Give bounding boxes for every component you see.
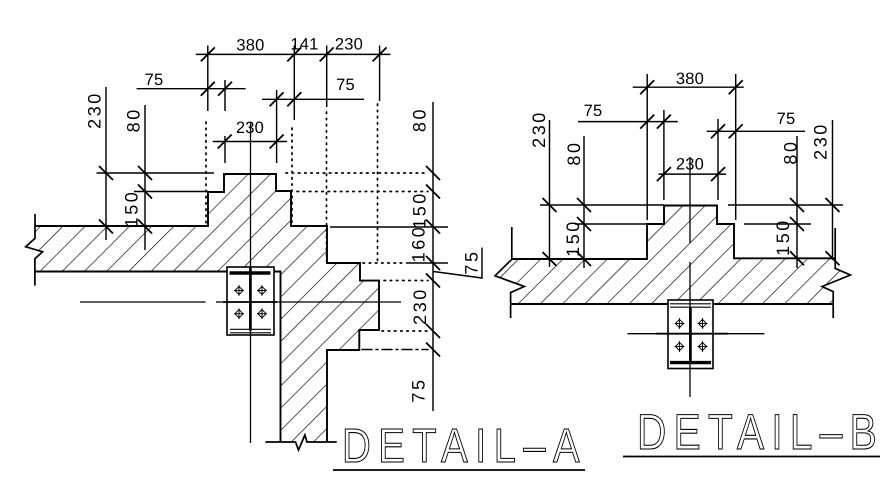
svg-text:150: 150: [122, 190, 142, 228]
ticks: chains B slab top: [543, 252, 557, 266]
concrete section B outline (slab with plinth): [512, 206, 835, 260]
witness x=663.9: [663, 110, 665, 200]
svg-text:150: 150: [563, 219, 583, 257]
plate A web (thick vertical): [249, 268, 252, 331]
witness x=207.8: [207, 46, 209, 112]
svg-text:230: 230: [811, 122, 831, 160]
svg-text:230: 230: [410, 287, 430, 325]
bolt A3: [234, 308, 244, 319]
slab B right break line: [822, 228, 850, 318]
svg-text:75: 75: [409, 377, 429, 402]
dim line 380 (top B): [633, 86, 744, 88]
ticks: left chains A: [99, 166, 113, 180]
witness x=718: [717, 119, 719, 200]
column A centerline (vertical): [250, 122, 252, 443]
concrete section A outline (stepped slab/column): [35, 174, 379, 442]
left chain line x=584: [583, 136, 585, 268]
bolt B1: [675, 318, 685, 329]
witness x=379.6: [379, 46, 381, 102]
right chain line x=797: [796, 136, 798, 268]
leader for 75: [434, 248, 483, 279]
bolt A2: [257, 285, 267, 296]
svg-text:160: 160: [409, 225, 429, 263]
ticks: right chain A: [426, 166, 440, 180]
ticks: dim 75 top left: [201, 82, 215, 96]
svg-text:150: 150: [410, 191, 430, 229]
ticks: chains B step level: [577, 217, 591, 231]
ticks: dim 230 mid: [218, 135, 232, 149]
witness x=326.7: [326, 46, 328, 108]
peak level witness line left B: [540, 204, 664, 206]
step level witness line left: [134, 191, 208, 193]
slab B left break line: [495, 227, 524, 318]
tick marks A: [99, 47, 440, 356]
column A bottom break line: [265, 435, 336, 450]
bolt B2: [698, 318, 708, 329]
ticks: dim 230 mid B: [657, 167, 671, 181]
svg-text:230: 230: [85, 91, 105, 129]
svg-text:150: 150: [773, 218, 793, 256]
svg-text:80: 80: [781, 139, 801, 164]
witness x=735.7: [735, 74, 737, 220]
svg-text:75: 75: [336, 76, 355, 94]
witness x=225 (lower): [224, 136, 226, 163]
svg-text:230: 230: [335, 36, 363, 54]
left chain line x=549.5: [549, 120, 551, 267]
plate A bottom packing plate (double line): [230, 328, 271, 330]
bolt group A centerline (horizontal): [80, 301, 206, 303]
bolt A4: [257, 308, 267, 319]
right chain line x=832.5: [832, 120, 834, 260]
dimension lines B: [540, 74, 843, 268]
witness x=294.3: [293, 46, 295, 121]
dim line 230 (mid B): [659, 173, 727, 175]
dim line 230 (mid): [213, 141, 287, 143]
step level witness left B: [575, 223, 647, 225]
svg-text:230: 230: [529, 110, 549, 148]
witness x=225 (upper): [224, 80, 226, 111]
slab A left break line: [26, 214, 43, 286]
dim line 75 (top right): [262, 98, 364, 100]
bolts A: [234, 285, 244, 296]
ticks: chains B peak level: [543, 198, 557, 212]
plate A top flange (thick): [230, 271, 271, 274]
svg-text:75: 75: [777, 110, 796, 128]
slab B bottom edge: [511, 303, 834, 305]
dim line 75 (left B): [578, 121, 678, 123]
svg-text:DETAIL–B: DETAIL–B: [637, 404, 884, 460]
ticks: dim 75 right B: [711, 124, 725, 138]
right chain line A: [432, 102, 434, 411]
column B centerline (vertical): [689, 157, 691, 243]
left chain line x=106: [105, 87, 107, 240]
dim line 75 (right B): [707, 130, 805, 132]
bolt B4: [698, 341, 708, 352]
peak level witness line right B: [728, 204, 843, 206]
svg-text:80: 80: [124, 107, 144, 132]
splice plate A (white): [227, 267, 274, 335]
slab A bottom edge: [35, 271, 227, 273]
bolt B3: [675, 341, 685, 352]
dimension lines A: [97, 46, 483, 412]
witness x=647.2: [646, 74, 648, 220]
witness x=276.6: [276, 90, 278, 163]
svg-text:380: 380: [676, 70, 704, 88]
dim line 75 (top left): [137, 88, 246, 90]
bolt group B centerline (horizontal): [628, 333, 765, 335]
slab top witness to right chain: [330, 226, 448, 228]
plate B web (thick vertical): [689, 307, 692, 361]
ticks: dim 75 left B: [640, 115, 654, 129]
svg-text:230: 230: [236, 119, 264, 137]
svg-text:80: 80: [564, 140, 584, 165]
svg-text:380: 380: [236, 37, 264, 55]
concrete section B hatch fill: [495, 206, 850, 305]
svg-text:80: 80: [410, 107, 430, 132]
peak level witness line left: [97, 172, 215, 174]
left chain line x=145: [144, 105, 146, 250]
ticks: top dim 380/141/230: [201, 47, 215, 61]
step witness y=263 near right chain: [406, 262, 448, 264]
plate B bottom flange (thick): [670, 361, 711, 364]
svg-text:75: 75: [584, 102, 603, 120]
svg-text:75: 75: [145, 71, 164, 89]
plate B top packing plate (double line): [670, 303, 711, 305]
svg-text:75: 75: [462, 249, 482, 274]
column A left edge: [274, 272, 281, 443]
tick marks B: [543, 80, 840, 266]
svg-text:141: 141: [290, 36, 318, 54]
svg-text:DETAIL–A: DETAIL–A: [342, 420, 587, 473]
ticks: dim 380 B: [640, 80, 654, 94]
dim line 380/141/230 (top): [196, 53, 391, 55]
step level witness right B: [744, 223, 811, 225]
dotted projection lines A: [206, 104, 428, 331]
splice plate B (white): [668, 300, 713, 369]
concrete section A hatch fill: [26, 174, 379, 450]
svg-text:230: 230: [676, 155, 704, 173]
ticks: dim 75 top right: [270, 92, 284, 106]
